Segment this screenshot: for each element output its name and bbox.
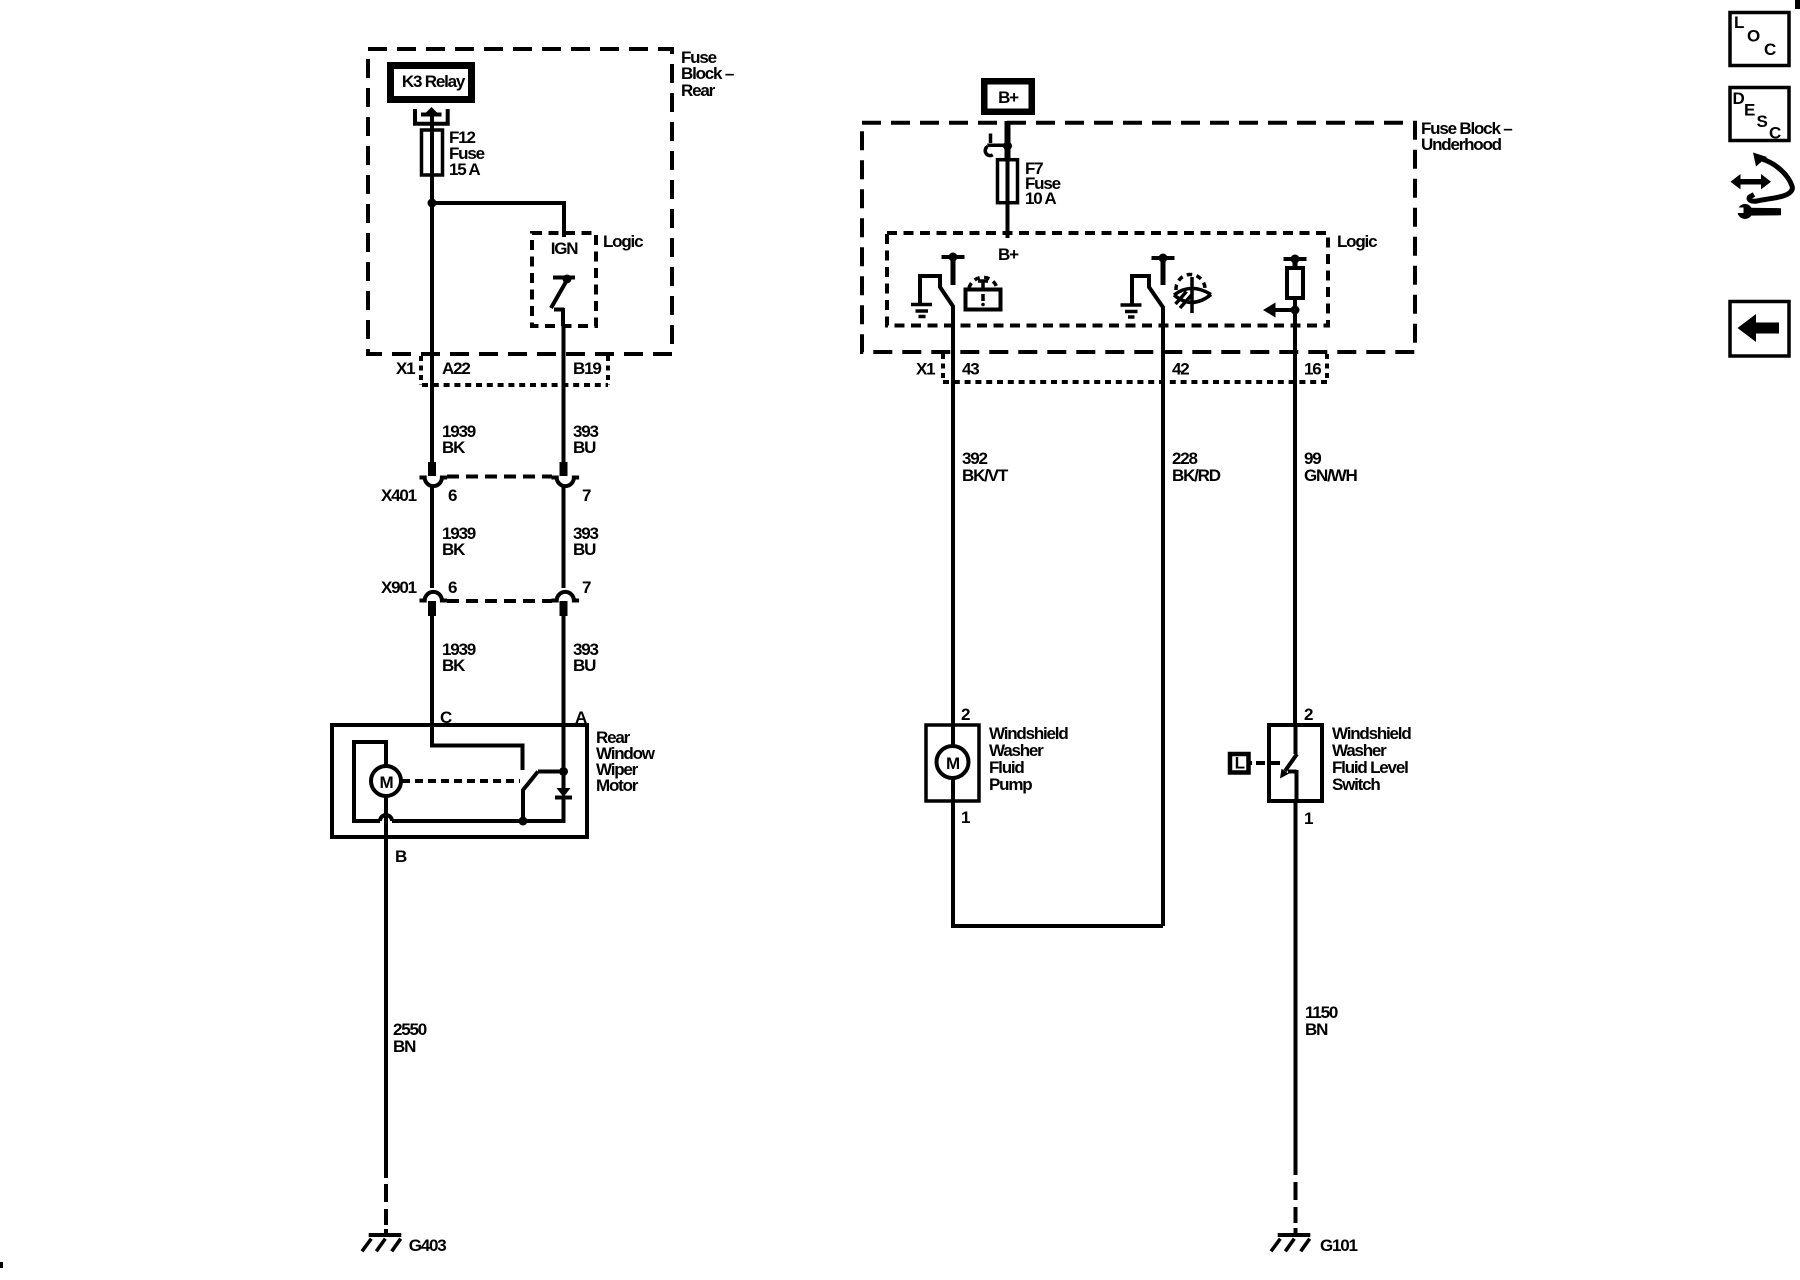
- svg-text:BK: BK: [442, 656, 466, 675]
- ground symbol (logic driver 2): [1121, 305, 1142, 317]
- junction node at arrow: [1291, 306, 1300, 315]
- svg-text:IGN: IGN: [551, 239, 579, 258]
- relay output holder clip symbol: [413, 107, 450, 130]
- wire 1939 BK segment 2: [432, 486, 476, 588]
- svg-text:6: 6: [448, 486, 457, 505]
- DESC button: [1730, 88, 1789, 143]
- svg-text:BK: BK: [442, 540, 466, 559]
- motor park switch: [523, 772, 564, 822]
- svg-text:Rear: Rear: [681, 81, 716, 100]
- battery feed hook: [985, 134, 1006, 156]
- junction node at fuse output: [428, 199, 437, 208]
- wire 2550 BN: [386, 1020, 427, 1236]
- svg-text:2: 2: [961, 705, 970, 724]
- svg-text:BU: BU: [573, 438, 596, 457]
- B+ feed wire: [1005, 121, 1011, 160]
- svg-text:16: 16: [1304, 360, 1321, 379]
- svg-text:Switch: Switch: [1332, 775, 1380, 794]
- wire 1939 BK segment 1: [432, 354, 476, 476]
- B+ node box: [981, 78, 1035, 115]
- svg-text:Motor: Motor: [596, 776, 639, 795]
- svg-text:M: M: [946, 754, 960, 773]
- motor C contact wire: [432, 725, 523, 770]
- battery telltale icon: [966, 277, 1001, 309]
- connector X1 band (rear fuse block): [396, 356, 608, 385]
- wire 393 BU segment 2: [564, 486, 599, 588]
- svg-text:B19: B19: [573, 359, 601, 378]
- svg-text:43: 43: [962, 360, 979, 379]
- page notch top right: [1795, 0, 1800, 9]
- wire B19 from IGN to connector: [562, 326, 566, 354]
- compare/tools icon: [1731, 153, 1793, 220]
- svg-text:K3 Relay: K3 Relay: [402, 72, 466, 91]
- inline connector X401: [381, 477, 591, 506]
- diode: [555, 771, 572, 823]
- svg-text:GN/WH: GN/WH: [1304, 466, 1357, 485]
- svg-text:Underhood: Underhood: [1421, 135, 1502, 154]
- junction node at A: [559, 767, 568, 776]
- wire 393 BU segment 1: [564, 354, 599, 476]
- svg-text:1: 1: [1304, 809, 1313, 828]
- connector X1 band (underhood): [916, 354, 1327, 382]
- svg-text:C: C: [1764, 40, 1776, 59]
- wire 99 GN/WH: [1295, 385, 1357, 725]
- logic driver 1: B+ feed tee: [942, 253, 965, 286]
- page notch bottom left: [0, 1262, 3, 1268]
- logic driver 2 switch to ground: [1132, 276, 1164, 308]
- svg-text:BN: BN: [1305, 1020, 1328, 1039]
- wire below resistor: [1293, 298, 1297, 385]
- svg-text:1: 1: [961, 808, 970, 827]
- logic driver 3: B+ feed tee: [1284, 255, 1307, 270]
- wire 1939 BK segment 3: [432, 601, 476, 727]
- svg-text:G403: G403: [409, 1236, 447, 1255]
- logic driver 2: B+ feed tee: [1152, 254, 1175, 286]
- motor M: [371, 766, 401, 796]
- svg-text:L: L: [1235, 754, 1245, 773]
- svg-text:S: S: [1757, 112, 1768, 131]
- Fuse Block - Underhood dashed box: [862, 119, 1512, 352]
- motor link dashed line: [402, 779, 520, 783]
- svg-text:C: C: [1769, 124, 1781, 143]
- wire 1150 BN: [1296, 801, 1338, 1236]
- wire from fuse to junction and IGN branch: [430, 175, 564, 354]
- svg-text:X901: X901: [381, 578, 417, 597]
- wire 42 inside blocks: [1161, 307, 1165, 385]
- wire 393 BU segment 3: [564, 601, 599, 727]
- fuse F7 10A: [998, 159, 1061, 208]
- junction node at switch bottom: [519, 817, 528, 826]
- sense resistor: [1287, 268, 1303, 298]
- svg-text:G101: G101: [1320, 1236, 1358, 1255]
- svg-text:X1: X1: [916, 360, 935, 379]
- svg-text:BU: BU: [573, 540, 596, 559]
- motor bottom bus wire with hop: [354, 742, 564, 821]
- inline connector X901: [381, 578, 591, 601]
- svg-text:2: 2: [1304, 705, 1313, 724]
- svg-text:15 A: 15 A: [449, 160, 480, 179]
- washer spray telltale icon: [1174, 274, 1211, 313]
- svg-text:BK/RD: BK/RD: [1172, 466, 1221, 485]
- svg-text:10 A: 10 A: [1025, 189, 1056, 208]
- svg-text:B: B: [395, 847, 407, 866]
- logic driver 1 switch to ground: [920, 276, 954, 307]
- svg-text:M: M: [380, 773, 394, 792]
- svg-text:D: D: [1733, 89, 1745, 108]
- svg-text:42: 42: [1172, 360, 1189, 379]
- motor A wire: [562, 725, 566, 771]
- IGN logic dashed box: [532, 232, 643, 326]
- washer fluid level switch box: [1269, 705, 1411, 828]
- fuse F12 15A: [422, 126, 485, 202]
- wire fuse to logic: [1006, 202, 1010, 238]
- wire 228 BK/RD: [1163, 385, 1221, 926]
- svg-text:A22: A22: [442, 359, 470, 378]
- washer fluid pump box: [926, 705, 1068, 827]
- svg-text:O: O: [1747, 27, 1760, 46]
- IGN switch: [551, 275, 575, 327]
- junction node below B+: [1003, 142, 1012, 151]
- relay K3 box: [387, 62, 475, 103]
- Logic dashed box (underhood): [887, 232, 1377, 326]
- ground G101: [1271, 1235, 1358, 1255]
- svg-text:7: 7: [582, 578, 591, 597]
- rear window wiper motor box: [332, 725, 656, 837]
- svg-text:Logic: Logic: [603, 232, 643, 251]
- motor B wire: [386, 796, 407, 1178]
- back arrow button: [1730, 302, 1789, 357]
- svg-text:B+: B+: [998, 245, 1019, 264]
- svg-text:BN: BN: [393, 1037, 416, 1056]
- svg-text:X1: X1: [396, 359, 415, 378]
- wire 43 inside blocks: [951, 306, 955, 385]
- svg-text:Pump: Pump: [989, 775, 1032, 794]
- svg-text:BK/VT: BK/VT: [962, 466, 1009, 485]
- level sensor float L box: [1230, 754, 1280, 773]
- ground G403: [362, 1235, 446, 1255]
- LOC button: [1730, 13, 1789, 66]
- ground symbol (logic driver 1): [911, 305, 932, 317]
- svg-text:E: E: [1744, 101, 1755, 120]
- svg-text:7: 7: [582, 486, 591, 505]
- svg-text:L: L: [1734, 13, 1744, 32]
- svg-text:X401: X401: [381, 486, 417, 505]
- pump return wire to 42: [953, 801, 1163, 926]
- signal arrow: [1263, 303, 1295, 318]
- svg-text:Logic: Logic: [1337, 232, 1377, 251]
- Fuse Block - Rear dashed box: [368, 48, 734, 354]
- svg-text:6: 6: [448, 578, 457, 597]
- svg-text:BK: BK: [442, 438, 466, 457]
- svg-text:B+: B+: [998, 88, 1019, 107]
- wire 392 BK/VT: [953, 385, 1009, 725]
- svg-text:BU: BU: [573, 656, 596, 675]
